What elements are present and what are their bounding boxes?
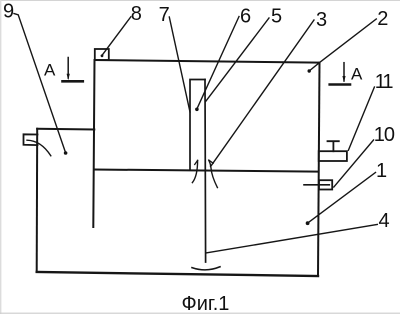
leader 10 — [334, 140, 374, 187]
svg-text:3: 3 — [316, 9, 327, 31]
central tube 5/6/7 — [190, 80, 205, 171]
leader 11 — [348, 87, 374, 150]
section marker right: arrow — [343, 63, 345, 81]
inlet pipe 9 (left stub) — [24, 134, 38, 145]
svg-text:9: 9 — [3, 1, 14, 23]
leader 2 end dot — [308, 69, 311, 72]
svg-text:5: 5 — [271, 6, 282, 28]
section arrow head left — [67, 74, 70, 80]
leader 1 — [308, 173, 376, 224]
flow arrow left of pipe — [192, 160, 197, 182]
leader 4 — [206, 224, 377, 253]
outlet 10 body — [319, 180, 332, 189]
leader 9 — [14, 14, 66, 153]
flow arrowhead right — [209, 160, 213, 163]
svg-text:A: A — [44, 60, 56, 79]
svg-text:6: 6 — [240, 6, 251, 28]
leader 2 — [309, 19, 376, 71]
vessel upper-box top wall — [95, 60, 320, 63]
scan edge left — [0, 0, 2, 314]
outer-vessel bottom wall — [37, 272, 318, 276]
section arrow head right — [342, 76, 345, 82]
divider plate — [94, 170, 318, 172]
section marker right: bar — [330, 83, 350, 86]
central pipe (tube right wall continuing down) — [204, 80, 207, 263]
svg-text:2: 2 — [377, 8, 388, 30]
svg-text:7: 7 — [159, 4, 170, 26]
section marker left: bar — [63, 80, 83, 83]
svg-text:1: 1 — [376, 160, 387, 182]
svg-text:10: 10 — [374, 124, 395, 146]
section marker left: arrow — [67, 58, 69, 79]
leader 3 — [211, 20, 314, 167]
flow arrow right of pipe — [209, 160, 218, 187]
outer-vessel top wall (left section) — [37, 128, 94, 131]
svg-text:4: 4 — [379, 210, 390, 232]
vessel right wall — [318, 63, 320, 276]
leader 6 end dot — [195, 108, 199, 112]
leader 7 — [169, 17, 190, 112]
leader 9 end dot — [64, 151, 68, 155]
leader 8 — [102, 17, 131, 56]
splash dish 4 — [192, 267, 220, 270]
flow arrowhead left — [195, 160, 198, 164]
vessel inner-left wall — [93, 60, 94, 227]
scan edge top — [0, 0, 400, 2]
scan edge bottom — [0, 312, 400, 314]
valve 11 body — [319, 151, 347, 161]
svg-text:Фиг.1: Фиг.1 — [182, 293, 230, 314]
leader 8 end dot — [101, 54, 104, 57]
valve 11 T-handle — [328, 141, 339, 151]
leader 5 — [206, 18, 269, 102]
svg-text:11: 11 — [375, 71, 394, 93]
leader 6 — [197, 17, 239, 109]
svg-text:8: 8 — [131, 3, 142, 25]
leader 1 end dot — [306, 221, 310, 225]
svg-text:A: A — [351, 65, 363, 84]
fitting 8 (small square on top) — [95, 49, 109, 60]
outer-vessel left wall — [36, 129, 39, 272]
inlet flow arrow — [27, 140, 51, 156]
outlet 10 stub line — [304, 184, 329, 186]
